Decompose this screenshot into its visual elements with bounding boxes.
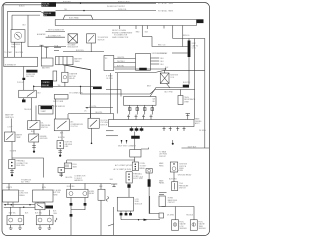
label box B (199, 221, 207, 230)
junction dot A (80, 3, 81, 4)
svg-text:BLK/ORG: BLK/ORG (76, 50, 84, 52)
connector box left low (9, 160, 15, 169)
svg-text:ALT & START (A THIS): ALT & START (A THIS) (115, 164, 133, 167)
self test box (130, 148, 149, 158)
fuse link blob under alternator (26, 70, 37, 73)
starter feed blob (41, 80, 53, 88)
wire relay down (64, 82, 66, 86)
bulkhead bump (63, 15, 93, 19)
top band engine text block (112, 29, 133, 39)
svg-text:PANEL: PANEL (159, 182, 165, 185)
wire start feed (35, 106, 37, 121)
harness bottom pins with blobs (130, 127, 144, 132)
svg-text:SENDER: SENDER (180, 228, 188, 230)
svg-text:RELAY: RELAY (69, 77, 75, 80)
wire red lg mid (152, 37, 188, 47)
fuel tank sender box (64, 163, 72, 169)
svg-text:BLK/PNK: BLK/PNK (183, 82, 191, 84)
battery B2 box (56, 57, 74, 65)
wire vertical V3 (11, 15, 13, 30)
svg-text:HARNESS: HARNESS (74, 179, 83, 182)
spring squiggle left (55, 218, 57, 222)
wire left stub 2 (106, 135, 118, 137)
wire yel bus (34, 86, 93, 88)
connector bars mid (58, 149, 62, 157)
svg-text:BLK/ORG: BLK/ORG (67, 186, 75, 188)
svg-text:SWITCH: SWITCH (98, 39, 106, 41)
bottom right box A (172, 220, 179, 231)
svg-text:SENDER: SENDER (199, 228, 207, 230)
bottom right box B (190, 220, 197, 231)
battery box B1 (41, 58, 53, 69)
wire fuse down (149, 187, 163, 214)
TFI ignition module box U1 (104, 56, 114, 71)
right col dashes (159, 193, 167, 195)
svg-text:BLK/YEL: BLK/YEL (66, 177, 73, 179)
text block mid low (74, 176, 86, 183)
svg-text:DK BLU: DK BLU (160, 53, 167, 55)
left text block main jump (5, 114, 14, 119)
inst connector tall 2 (126, 172, 132, 183)
junction blk yel (86, 107, 87, 108)
svg-text:BLK ORG: BLK ORG (26, 76, 34, 78)
svg-text:ALT THRU: ALT THRU (21, 181, 30, 184)
svg-text:ALT & START (A THIS): ALT & START (A THIS) (114, 168, 132, 171)
bracket stub lines (54, 45, 61, 51)
label right of harness (195, 118, 202, 126)
wire small box drop (100, 184, 102, 190)
alternator box A2 (4, 57, 38, 66)
wire resistor tap (180, 90, 182, 96)
right text block mid (159, 150, 168, 158)
svg-text:FEED: FEED (159, 165, 164, 167)
fuse link block S2 (44, 12, 56, 17)
svg-text:YEL: YEL (64, 9, 67, 11)
start blob box (39, 105, 53, 114)
horn box H1 (67, 189, 88, 197)
wire left stub 1 (106, 130, 114, 132)
wire coil tick (164, 70, 166, 73)
svg-text:ALTERNATOR: ALTERNATOR (5, 64, 17, 67)
svg-text:BLK/YEL: BLK/YEL (90, 106, 97, 108)
svg-text:BULK HEAD: BULK HEAD (69, 16, 80, 19)
bottom right section box (159, 196, 165, 207)
fuse holder with circle (146, 169, 152, 174)
M2 grounds (38, 225, 51, 230)
ground blob W BLK (139, 68, 147, 71)
wire temp down (11, 142, 13, 160)
svg-text:GROUND: GROUND (40, 138, 48, 140)
junction dot B (83, 10, 84, 11)
wire small box down (100, 200, 102, 235)
wire blk yel bus (86, 107, 114, 109)
junction yel (80, 86, 81, 87)
ground blob right (93, 87, 102, 90)
svg-text:ENG SIDE: ENG SIDE (17, 165, 26, 167)
wire fusebox drops (8, 202, 44, 207)
bulkhead connector band (55, 20, 196, 26)
svg-text:SELF TEST CONNECT: SELF TEST CONNECT (118, 145, 137, 147)
wiper motor box M1 (7, 216, 24, 225)
harness top connectors (127, 115, 153, 120)
ignition switch feed blob (197, 19, 204, 23)
cluster pin resistors (129, 105, 154, 114)
wire hot feed A (56, 2, 156, 4)
engine ground switch (29, 134, 39, 142)
svg-text:BLK/YEL: BLK/YEL (58, 137, 65, 139)
svg-text:BLK/Y BLK: BLK/Y BLK (188, 146, 197, 148)
svg-text:BLK / PNK: BLK / PNK (165, 92, 174, 94)
wire mid low bus (12, 158, 44, 178)
svg-text:DK GRN: DK GRN (199, 130, 206, 132)
wire belt lamp (147, 86, 183, 97)
junction dist ground (165, 68, 166, 69)
wire to coil (182, 26, 184, 47)
wire field lead (12, 14, 40, 16)
harness connector tall (132, 162, 138, 171)
wire diode down (55, 99, 57, 119)
svg-text:PANEL: PANEL (140, 167, 146, 170)
connector bars left (32, 142, 36, 153)
wire orange lead (8, 11, 44, 13)
svg-text:YEL: YEL (58, 85, 61, 87)
wire relay to switch (31, 98, 33, 121)
svg-text:RED / LG: RED / LG (158, 45, 166, 47)
svg-text:GROUND RELAY: GROUND RELAY (178, 173, 192, 176)
wire run feed (173, 39, 205, 71)
svg-text:WHT/BLU: WHT/BLU (117, 61, 125, 63)
svg-text:CIRCUIT: CIRCUIT (168, 202, 176, 204)
left tiny stack (53, 211, 58, 216)
wire ac feed top (67, 114, 69, 119)
wires into M2 (40, 210, 49, 216)
fuse panel text block (19, 190, 28, 197)
svg-text:FUSE LINK: FUSE LINK (44, 13, 51, 15)
wires into M1 (11, 207, 20, 215)
svg-text:SWITCH: SWITCH (179, 188, 187, 190)
svg-text:WITH CONNECTOR: WITH CONNECTOR (48, 30, 65, 32)
wire left drop (10, 119, 12, 133)
svg-text:SWITCH: SWITCH (100, 124, 108, 126)
svg-text:W PLUG: W PLUG (17, 82, 24, 84)
instrument cluster box U3 (124, 97, 157, 106)
wire horn drops (71, 184, 86, 190)
aux box low (35, 203, 45, 210)
label low fuel (135, 199, 143, 206)
connector under fuel (57, 141, 64, 149)
svg-text:BODY SIDE: BODY SIDE (133, 178, 143, 180)
svg-text:W CONNECTOR: W CONNECTOR (69, 92, 83, 94)
heater motor box M2 (36, 216, 53, 225)
svg-text:YEL/BLK: YEL/BLK (24, 109, 32, 111)
low fuel pins (120, 211, 132, 220)
svg-text:OF COIL: OF COIL (106, 78, 113, 80)
right fuse box low (172, 182, 178, 191)
svg-text:BLK/YEL: BLK/YEL (117, 65, 124, 67)
temp sender switch (5, 132, 16, 142)
wire oil down (33, 130, 35, 135)
label horn left (53, 190, 62, 197)
wire regulator output (90, 43, 92, 52)
svg-text:GRAY CONNECTOR: GRAY CONNECTOR (112, 36, 129, 39)
clutch wire end dot (91, 143, 93, 145)
svg-text:BLK YEL: BLK YEL (9, 212, 16, 214)
label bottom right top (168, 198, 178, 205)
junction relay (33, 86, 34, 87)
relay ground (22, 98, 26, 103)
horn connector blobs (70, 203, 87, 217)
wire from tfi pin2 (116, 73, 118, 114)
w plug blob (22, 78, 25, 80)
wire alternator output (23, 67, 25, 91)
wire vertical V2 (7, 11, 9, 57)
mid connector box low (58, 168, 65, 173)
labels under buses (9, 212, 42, 214)
svg-text:MODULE: MODULE (135, 203, 143, 205)
self test connectors (121, 140, 128, 144)
wire drop w connector (81, 87, 195, 95)
blob belt (183, 85, 189, 88)
svg-text:HOT AT ALL TIMES: HOT AT ALL TIMES (158, 2, 174, 5)
blob right of aux (46, 206, 54, 209)
wire tfi-dist 3 (114, 66, 136, 68)
wire bar top (188, 39, 190, 41)
svg-text:FUSE LINK: FUSE LINK (42, 3, 49, 5)
arrow blob bottom (144, 219, 149, 221)
svg-text:BLACK: BLACK (19, 4, 25, 7)
section bus lower (3, 183, 112, 185)
run fuse box (33, 190, 54, 202)
wire bottom mid drop (174, 207, 176, 220)
svg-text:COIL: COIL (192, 48, 196, 50)
heater tap caps (40, 45, 49, 58)
svg-text:RED/LG: RED/LG (183, 35, 190, 37)
wire red tick (136, 26, 152, 37)
wire tfi-dist 2 (114, 62, 136, 64)
svg-text:BLK/ORG: BLK/ORG (169, 178, 177, 180)
right connector box mid (170, 162, 178, 172)
wire left low drop (113, 207, 115, 224)
label box A (180, 221, 188, 230)
wire right run down2 (204, 70, 206, 148)
pin tick with dot (172, 140, 174, 145)
wire dk blu to bar (172, 52, 188, 54)
svg-text:BLK/LT GRN: BLK/LT GRN (53, 101, 64, 103)
ground bar mid (111, 184, 117, 187)
spring squiggle mid (106, 197, 109, 202)
distributor box U2 (136, 54, 151, 71)
svg-text:REGULATOR: REGULATOR (68, 46, 79, 49)
fuse link block S1 (42, 2, 57, 7)
wire bus drop connector (134, 160, 136, 162)
wire stator bus (63, 51, 104, 53)
harness bottom pins right group (163, 127, 186, 132)
svg-text:SWITCH: SWITCH (41, 127, 49, 129)
wire bus low1 (4, 204, 40, 206)
bulkhead pin ticks (120, 26, 164, 30)
wire tfi-dist 1 (114, 58, 136, 60)
small box right of horn (98, 186, 105, 200)
resistor wire connector box (178, 96, 183, 105)
clutch cycling switch box (88, 118, 99, 128)
wire relay coil in (33, 85, 35, 90)
wire conn2 down blob (127, 183, 130, 197)
svg-text:RELAY: RELAY (89, 192, 95, 195)
svg-text:FIELD: FIELD (11, 46, 17, 48)
svg-text:FUSE TO BOX: FUSE TO BOX (118, 2, 130, 4)
svg-text:PANEL: PANEL (19, 194, 25, 197)
battery cable diagonal (63, 65, 91, 119)
connector bars left low (10, 169, 14, 177)
svg-text:YEL/BLK: YEL/BLK (186, 214, 194, 216)
wire ac down (61, 131, 63, 141)
wire from tfi pin1 (110, 73, 112, 114)
wire bottom right bus (162, 207, 195, 220)
svg-text:COIL: COIL (170, 77, 174, 79)
svg-text:BLK: BLK (44, 15, 47, 17)
wire right conn down (173, 172, 175, 182)
svg-text:A CONNECTOR: A CONNECTOR (48, 34, 61, 37)
bus junction dots (5, 204, 40, 208)
svg-text:BLK ORG: BLK ORG (42, 5, 48, 7)
svg-text:TO GRN: TO GRN (10, 151, 17, 153)
wire bar down (188, 57, 190, 85)
wire low fuel bottom bus (121, 219, 160, 221)
connector lines with connector (46, 30, 65, 38)
svg-text:A HEATER: A HEATER (37, 33, 46, 36)
svg-text:HOT AT ALL TIMES: HOT AT ALL TIMES (158, 9, 174, 12)
mid connector bars low (59, 173, 63, 178)
wire horn down right (71, 198, 85, 210)
ac compressor clutch box (54, 119, 69, 131)
tiny box left edge bottom (159, 213, 164, 218)
wire bottom left hook (108, 224, 114, 235)
wire bus to fuel tank (66, 160, 68, 163)
low fuel module box U5 (117, 197, 133, 211)
ignition coil T1 (160, 73, 169, 84)
inline fuse black (140, 173, 151, 187)
junction low fuel (138, 219, 139, 220)
svg-text:BLK/ORG: BLK/ORG (16, 52, 24, 54)
wire to coil resistor (172, 26, 174, 39)
svg-text:START: START (41, 110, 47, 113)
diode box mid left (54, 95, 68, 100)
svg-text:TO START: TO START (4, 51, 13, 54)
wire drop L1 (8, 184, 10, 191)
coil secondary diagonal (167, 84, 171, 89)
svg-text:JUMP BLN: JUMP BLN (5, 117, 14, 119)
wire stator vertical (21, 42, 23, 57)
wire battery to relay (64, 65, 66, 73)
wire battery feed top (4, 4, 42, 6)
svg-text:BATTERY: BATTERY (42, 66, 51, 69)
wire ground bus (115, 68, 166, 70)
lights fuse box (3, 190, 19, 202)
voltage regulator VR1 (68, 34, 78, 43)
svg-text:FUSE 1 BL: FUSE 1 BL (118, 9, 127, 11)
wire horn down left (70, 198, 72, 236)
wire field verticals (14, 42, 16, 57)
svg-text:CABLE: CABLE (74, 60, 80, 63)
svg-text:PV AUX LEFT SUPPLY: PV AUX LEFT SUPPLY (107, 5, 126, 8)
wire cluster feed (106, 90, 121, 97)
wire self test down (134, 157, 136, 160)
svg-text:ORG: ORG (53, 213, 58, 215)
distributor terminals (151, 58, 165, 66)
svg-text:BLK/YEL: BLK/YEL (96, 112, 103, 114)
wire regulator drop (28, 15, 66, 47)
long bus 160 (67, 159, 135, 161)
main harness box U4 (109, 120, 195, 127)
border frame (2, 3, 210, 236)
starter relay K1 (19, 90, 37, 98)
wire drop L2 (42, 184, 44, 191)
wire vertical V1 (3, 5, 5, 57)
wire main bus 113 (68, 114, 114, 120)
svg-text:BLK YEL: BLK YEL (35, 212, 42, 214)
harness top connector right (186, 114, 191, 120)
starter motor relay box (62, 72, 68, 82)
label horn right (89, 191, 95, 195)
wire right run down (194, 39, 196, 120)
svg-text:LIGHTS: LIGHTS (6, 187, 13, 189)
wire coil top run (115, 70, 205, 72)
svg-text:CIRCUIT: CIRCUIT (159, 156, 167, 158)
wire clutch down (91, 128, 93, 143)
svg-text:DK GRN: DK GRN (167, 214, 174, 216)
plug connector box (53, 71, 57, 81)
coil hv bar (188, 41, 191, 58)
svg-text:TEMP: TEMP (16, 137, 22, 139)
alternator field circle A1 (11, 30, 25, 43)
svg-text:TO B SENSOR: TO B SENSOR (53, 106, 65, 108)
svg-text:ORG/YEL: ORG/YEL (117, 57, 125, 59)
wire right blk yel run (182, 147, 210, 149)
svg-text:CLUTCH: CLUTCH (71, 126, 79, 128)
M1 grounds (9, 225, 22, 230)
wire bus low2 (4, 206, 40, 208)
ignition switch SW1 (87, 34, 96, 43)
svg-text:HORN: HORN (178, 170, 184, 172)
wire hot feed B (56, 10, 157, 12)
harness mid blob (131, 132, 140, 150)
wire right col drop (149, 196, 151, 214)
oil pressure switch (28, 121, 41, 130)
svg-text:BLK/ORG: BLK/ORG (63, 2, 71, 4)
